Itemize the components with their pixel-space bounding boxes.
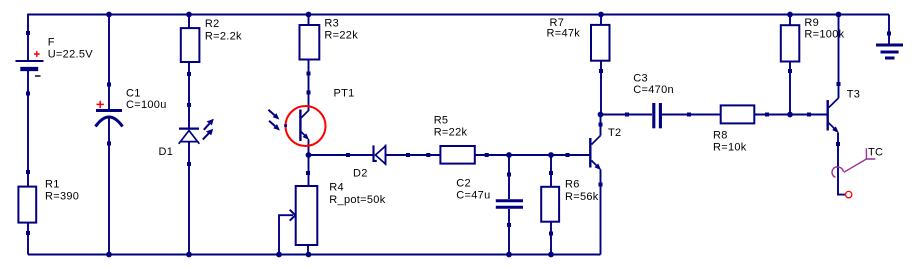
capacitor C3 [625, 72, 691, 128]
resistor R5 [426, 115, 488, 164]
battery F [16, 37, 94, 76]
TC probe hook [832, 146, 883, 177]
svg-text:R1: R1 [45, 179, 60, 191]
wire R6 column [550, 155, 552, 255]
wire R3/PT1 column [308, 15, 310, 156]
wire R4 bottom [307, 246, 309, 255]
wire bottom rail [28, 254, 601, 256]
resistor R6 [541, 171, 599, 236]
wire T2 collector [600, 115, 602, 136]
wire R8 to T3 base [755, 114, 827, 116]
wire R5 to C2 junction to R6 junction to T2 base [476, 154, 590, 156]
svg-text:D2: D2 [353, 167, 368, 179]
phototransistor PT1 [268, 88, 354, 147]
node R6 bottom junction [548, 252, 554, 258]
transistor T3 [828, 82, 860, 146]
wire left column battery/R1 branch [27, 14, 29, 255]
node R6 top junction [548, 152, 554, 158]
svg-text:R2: R2 [205, 18, 220, 30]
ground [876, 45, 903, 58]
svg-text:R5: R5 [434, 115, 449, 127]
svg-text:R=47k: R=47k [547, 28, 581, 40]
svg-text:R6: R6 [565, 178, 580, 190]
wire ground drop [888, 15, 890, 44]
node R9 top rail junction [787, 12, 793, 18]
svg-text:R=2.2k: R=2.2k [205, 30, 242, 42]
wire T3 emitter [838, 133, 845, 195]
resistor R1 [18, 170, 79, 235]
svg-text:R_pot=50k: R_pot=50k [329, 194, 385, 206]
node PT1 emitter junction [306, 152, 312, 158]
svg-text:R9: R9 [804, 17, 819, 29]
svg-text:R4: R4 [329, 182, 344, 194]
resistor R7 [547, 17, 610, 73]
wire PT1 emitter to R4 [308, 155, 310, 186]
node R7 top rail junction [598, 12, 604, 18]
node T2 collector junction [598, 112, 604, 118]
svg-text:R=390: R=390 [45, 190, 79, 202]
transistor T2 [566, 123, 622, 187]
resistor R8 [713, 105, 769, 153]
node C1 bottom rail junction [106, 252, 112, 258]
capacitor C2 [456, 173, 523, 228]
wire R9 column [789, 15, 791, 115]
node T3 collector top rail junction [836, 12, 842, 18]
terminal circle [846, 191, 852, 197]
node R9 bottom junction [787, 112, 793, 118]
potentiometer R4 [279, 171, 386, 255]
node C1 top rail junction [106, 12, 112, 18]
svg-text:C=47u: C=47u [456, 189, 490, 201]
node R4 bottom junction [306, 252, 312, 258]
resistor R9 [781, 17, 845, 73]
diode D2 [346, 145, 410, 180]
wire R7 column [600, 15, 602, 115]
wire T2 emitter to bottom rail [600, 170, 602, 255]
svg-text:TC: TC [868, 146, 883, 158]
wire T2 collector to C3 [601, 114, 653, 116]
wire C1 column [108, 15, 110, 255]
node D1 bottom rail junction [186, 252, 192, 258]
node C2 top junction [506, 152, 512, 158]
wire C3 to R8 [662, 114, 721, 116]
wire junction to D2 [309, 154, 374, 156]
resistor R2 [181, 18, 242, 76]
resistor R3 [300, 18, 359, 95]
node R4 wiper bottom junction [276, 252, 282, 258]
wire D2 to R5 [385, 154, 440, 156]
pin squares battery [26, 31, 30, 96]
svg-text:C2: C2 [456, 178, 471, 190]
svg-text:F: F [48, 37, 55, 49]
svg-text:T3: T3 [847, 89, 860, 101]
svg-text:PT1: PT1 [334, 88, 355, 100]
svg-text:R3: R3 [324, 18, 339, 30]
wire top rail [28, 14, 889, 16]
wire C2 column [508, 155, 510, 255]
svg-text:R=22k: R=22k [324, 29, 358, 41]
svg-text:D1: D1 [159, 146, 174, 158]
svg-text:C=470n: C=470n [633, 84, 674, 96]
node R2 top rail junction [186, 12, 192, 18]
svg-text:R=56k: R=56k [565, 191, 599, 203]
svg-text:C3: C3 [633, 72, 648, 84]
svg-text:R=10k: R=10k [713, 141, 747, 153]
node C2 bottom junction [506, 252, 512, 258]
capacitor C1 [96, 83, 167, 146]
LED D1 [159, 103, 214, 166]
svg-text:C=100u: C=100u [126, 99, 167, 111]
svg-text:T2: T2 [608, 127, 621, 139]
node R3 top rail junction [306, 12, 312, 18]
svg-text:C1: C1 [126, 87, 141, 99]
svg-text:U=22.5V: U=22.5V [48, 49, 94, 61]
svg-text:R8: R8 [713, 130, 728, 142]
wire T3 collector [838, 15, 840, 99]
svg-text:R=22k: R=22k [434, 127, 468, 139]
pin square ground [887, 32, 891, 36]
wire R2/D1 column [188, 15, 190, 255]
pin square T3 base [807, 113, 811, 117]
